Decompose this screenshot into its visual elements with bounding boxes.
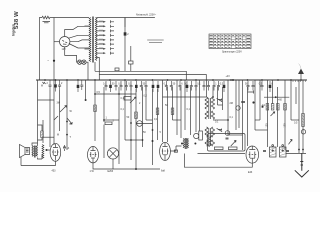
power transformer T1 primary winding: [89, 18, 91, 62]
wire column AJ: [277, 87, 279, 147]
mid horizontal link 3: [213, 119, 228, 121]
wire column O: [167, 87, 169, 142]
wire tap resistor down: [130, 64, 132, 71]
wire stub with node: [85, 80, 87, 99]
wire column D: [94, 80, 96, 141]
wire column L: [152, 89, 154, 166]
heater rail b: [99, 75, 206, 81]
wire left column C: [66, 80, 68, 150]
mid horizontal link 1: [95, 93, 136, 95]
pilot lamp LP1: [77, 60, 81, 64]
capacitor C6: [105, 81, 108, 91]
wire speaker top: [32, 143, 38, 146]
wire selector to tube: [54, 41, 60, 43]
resistor R10b: [271, 104, 274, 111]
wire column U: [195, 87, 197, 132]
potentiometer arrow P1b: [130, 97, 136, 103]
wire tube to transformer tap lower: [69, 44, 89, 49]
svg-text:6aII: 6aII: [161, 170, 165, 173]
voltage table frame: [209, 34, 251, 49]
electrolytic C31: [269, 81, 272, 92]
node dot m4: [142, 139, 144, 141]
heater rail stub: [94, 62, 96, 71]
capacitor C4: [77, 81, 80, 92]
socket circle mid: [137, 121, 143, 127]
LP1 filament cross: [78, 61, 81, 64]
V3 filament cross: [110, 150, 117, 157]
V5 grid: [249, 154, 257, 156]
output tube V1 envelope: [50, 143, 61, 161]
AF transformer T3 core: [184, 138, 187, 149]
power transformer T1 secondary winding: [95, 18, 97, 61]
heater rail a: [95, 71, 186, 80]
top caps right of V5: [263, 151, 289, 152]
node dot coil top: [212, 96, 214, 98]
link 43-54: [43, 136, 54, 138]
volume potentiometer wiper: [67, 118, 72, 124]
secondary tap 4: [97, 30, 104, 32]
wire transformer to V1: [38, 150, 51, 159]
fuse Si blob: [124, 32, 127, 35]
wire fuse to +4V rail: [124, 18, 126, 72]
secondary bottom lead: [97, 58, 100, 81]
junction +4V node: [232, 79, 234, 81]
V1 anode: [53, 144, 58, 148]
secondary tap 6: [97, 39, 104, 41]
mid link 9: [146, 119, 153, 121]
mid horizontal link 7: [125, 139, 143, 141]
wire column AC: [238, 80, 240, 128]
capacitor C13: [140, 81, 143, 91]
table cell entries: [210, 36, 251, 48]
node dot m3: [130, 139, 132, 141]
wire column AE: [247, 87, 249, 146]
capacitor C26: [217, 81, 220, 91]
electrolytic block EC1: [270, 147, 277, 157]
wire selector branch down: [53, 18, 55, 81]
wire column S: [184, 80, 186, 130]
note text right of taps: [147, 40, 164, 42]
IF transformer L1 lower winding: [205, 111, 215, 119]
wire column AL: [290, 80, 292, 120]
selector contacts inside: [62, 40, 67, 44]
EC2 hatch: [280, 148, 286, 156]
antenna lead-in faint: [299, 64, 301, 69]
capacitor C21: [190, 81, 193, 91]
V1 inner electrodes: [53, 150, 57, 156]
capacitor C19: [179, 81, 182, 91]
capacitor C3: [58, 81, 61, 91]
electrolytic C16: [157, 81, 160, 92]
node dot 67b: [66, 134, 68, 136]
rectifier tube V3 envelope: [107, 148, 118, 159]
capacitor C11: [130, 81, 133, 91]
node dot output: [46, 149, 48, 151]
node dot det: [252, 101, 254, 103]
wire column G: [124, 80, 126, 140]
main chassis bus: [36, 79, 307, 81]
IF transformer L2 windings: [205, 127, 215, 137]
node dot right b: [302, 149, 304, 151]
wire column AN: [298, 80, 300, 153]
AF transformer T3 secondary: [187, 138, 188, 148]
V1 grid: [52, 151, 59, 153]
wire left column B: [53, 80, 55, 145]
svg-text:2M: 2M: [230, 102, 233, 105]
wire left column A: [37, 80, 39, 143]
coupling capacitor CC1: [241, 102, 245, 103]
wire column AA: [227, 80, 229, 135]
detector tube V4 envelope: [160, 142, 171, 160]
table row lines: [209, 37, 251, 46]
tap voltage marks: [99, 21, 103, 48]
wire from R1 left down to chassis bus: [40, 18, 43, 81]
primary tap arrow upper: [85, 25, 90, 27]
module cap: [226, 138, 229, 139]
mid link 12: [291, 119, 299, 121]
capacitor C18: [170, 81, 173, 91]
wire V4 to module: [170, 146, 181, 151]
wire column AB: [235, 80, 237, 130]
mid horizontal link 5: [255, 129, 268, 131]
output tube V5 envelope: [246, 146, 259, 163]
wire column M: [157, 89, 159, 141]
switch contact: [54, 116, 58, 120]
tone capacitor circle: [194, 133, 199, 138]
IF transformer L1 upper winding: [205, 97, 215, 109]
wire column AD: [242, 80, 244, 150]
wire column Z: [222, 87, 224, 110]
EC2 plus: [282, 149, 285, 152]
bus stub ticks right: [293, 80, 306, 82]
V2 anode: [91, 147, 96, 151]
svg-text:100: 100: [284, 123, 287, 128]
node dot mid1: [130, 122, 132, 124]
svg-text:12V: 12V: [62, 48, 67, 51]
wire tube to transformer tap upper: [68, 35, 89, 38]
bus junction dots: [44, 79, 302, 81]
V4 inner electrodes: [163, 149, 168, 155]
module trimmer arrow: [231, 141, 236, 147]
resistor R1 mains dropper: [42, 16, 50, 19]
svg-text:E263: E263: [108, 170, 114, 173]
tone cap circle right of coil: [225, 131, 230, 136]
wire column AK: [284, 80, 286, 150]
wire column W: [206, 80, 208, 97]
capacitor C1: [49, 81, 52, 91]
AVC rail: [264, 96, 289, 98]
rail box: [115, 68, 119, 71]
node dot m2: [103, 119, 105, 121]
V5 inner electrodes: [250, 152, 255, 159]
wire column Q: [176, 80, 178, 135]
svg-text:M: M: [70, 123, 72, 126]
mid link 14: [136, 123, 153, 125]
capacitor C9: [120, 81, 123, 91]
mid horizontal link 4: [228, 134, 243, 136]
resistor R10c: [277, 104, 280, 111]
resistor R2b horizontal: [124, 97, 131, 101]
potentiometer arrow P1: [60, 106, 67, 113]
output transformer T2 secondary: [36, 146, 37, 157]
capacitor C30: [261, 81, 264, 91]
fuse ticks: [43, 82, 46, 84]
resistor R10a: [266, 104, 269, 111]
LP2 filament cross: [82, 61, 85, 64]
EC1 hatch: [270, 148, 276, 156]
secondary tap 9: [97, 52, 104, 54]
node dot m5: [118, 93, 120, 95]
IF transformer L2 core: [209, 128, 211, 146]
AF coupling transformer T3 primary: [183, 138, 184, 148]
node dot 67a: [66, 121, 68, 123]
speaker field coil hatch: [26, 149, 29, 152]
cathode resistor R12 zigzag: [42, 145, 44, 159]
svg-text:Netzanschl. 220V~: Netzanschl. 220V~: [136, 13, 157, 16]
wire column AH: [267, 80, 269, 147]
T3 node dot right: [194, 143, 196, 145]
wire column AF: [254, 80, 256, 130]
capacitor C22: [195, 81, 198, 91]
V1 cathode: [54, 156, 58, 161]
pilot lamp LP2: [82, 60, 86, 64]
node dot mid3: [227, 119, 229, 121]
T3 node dot left: [181, 143, 183, 145]
module resistor 1: [215, 147, 224, 150]
loop wire below module: [184, 154, 252, 168]
variable cap circle right: [301, 130, 305, 134]
wire column AM2: [295, 87, 297, 104]
output transformer T2 core: [33, 146, 36, 158]
electrolytic block EC2: [280, 147, 287, 157]
resistor R6: [171, 108, 174, 115]
secondary tap 8: [97, 48, 104, 50]
secondary tap 1: [97, 17, 155, 19]
value label 100: [43, 22, 51, 23]
svg-text:1 W: 1 W: [90, 170, 95, 173]
capacitor C25: [213, 81, 216, 91]
node dot bottom1: [135, 168, 137, 170]
resistor R3 vertical: [135, 112, 138, 119]
dropper feed wire: [124, 18, 126, 28]
svg-text:E43: E43: [248, 171, 253, 174]
capacitor C27: [223, 81, 226, 92]
wire lamps to bus: [86, 62, 88, 80]
ground symbol (earth arrow): [295, 153, 309, 177]
mid horizontal link 6: [104, 119, 119, 121]
wire column N: [162, 80, 164, 142]
wire column 43: [42, 120, 44, 143]
capacitor C14: [145, 81, 148, 91]
resistor R10d: [284, 104, 287, 111]
V2 cathode: [91, 158, 95, 163]
capacitor C23: [203, 81, 206, 91]
wire bottom bus left: [93, 163, 160, 169]
wire column E2: [49, 90, 51, 147]
wire R11 top: [38, 125, 43, 131]
trimmer arrow far right: [289, 140, 293, 145]
capacitor C17: [165, 81, 168, 91]
node dot mid2: [152, 129, 154, 131]
svg-text:M: M: [57, 134, 59, 137]
electrolytic C12: [135, 81, 138, 92]
resistor R7 vertical right: [302, 114, 305, 127]
table column lines: [214, 34, 246, 49]
resistor R13 box vertical: [199, 131, 203, 140]
wire column AI: [272, 80, 274, 104]
driver tube V2 envelope: [88, 147, 99, 163]
mid link 11: [255, 119, 260, 121]
secondary tap 3: [97, 25, 104, 27]
band filter module box: [208, 134, 246, 152]
node dot AVC: [275, 96, 277, 98]
module coil: [209, 136, 212, 147]
antenna arrow: [299, 69, 304, 80]
small caps near V1: [63, 145, 66, 151]
V4 cathode: [163, 155, 167, 160]
IF transformer L2 lower winding: [205, 140, 215, 146]
trimmer capacitor CT2: [217, 128, 223, 131]
secondary tap 2: [97, 21, 104, 23]
wire C3 tail: [59, 90, 61, 131]
svg-text:+4V: +4V: [226, 75, 231, 78]
wire column P: [172, 87, 174, 120]
secondary tap 7: [97, 43, 104, 45]
diode detector D1: [236, 106, 240, 110]
node dot selector: [53, 60, 55, 62]
wire column K: [145, 87, 147, 120]
wire column V: [199, 80, 201, 131]
V4 grid: [162, 150, 169, 152]
node dot m1: [94, 93, 96, 95]
wire from R1 right to transformer primary: [50, 17, 89, 19]
wire column F: [118, 87, 120, 164]
secondary tap 5: [97, 34, 104, 36]
IF transformer L1 core: [209, 98, 211, 119]
EC1 terminal: [272, 145, 274, 147]
small resistor box low: [174, 150, 177, 152]
wire column I: [135, 89, 137, 131]
wire column T: [190, 87, 192, 135]
V2 grid: [90, 154, 97, 156]
wire column AG: [259, 80, 261, 120]
mid link 13: [218, 104, 223, 106]
grid cap lead: [248, 91, 254, 94]
resistor R11 left: [41, 131, 44, 138]
electrolytic C2: [54, 81, 57, 92]
mid horizontal link 2: [163, 96, 207, 98]
wire V3 bottom: [112, 159, 114, 169]
capacitor C8: [115, 81, 118, 91]
grid leak resistor R4: [94, 105, 97, 112]
tap resistor box: [129, 61, 133, 64]
EC2 terminal: [282, 145, 284, 147]
trimmer capacitor CT1: [217, 98, 223, 101]
wire column H: [130, 87, 132, 160]
trimmer arrow right: [271, 112, 275, 116]
capacitor C5: [80, 81, 83, 91]
wire tap resistor up: [130, 46, 132, 61]
wire column AO: [302, 80, 304, 153]
wire tube to mid tap: [70, 40, 89, 42]
wire V1 bottom: [21, 157, 55, 166]
loudspeaker LS: [20, 145, 30, 158]
wire module bottom rail: [198, 153, 246, 155]
EC1 plus: [272, 149, 275, 152]
resistor R5: [156, 108, 159, 115]
svg-text:~: ~: [47, 59, 49, 63]
svg-text:+60: +60: [278, 99, 283, 102]
capacitor C24: [207, 81, 210, 91]
svg-text:100: 100: [266, 123, 269, 128]
R7 hatch: [302, 116, 305, 126]
wire column J: [142, 87, 144, 147]
node dot mid2b: [152, 140, 154, 142]
power transformer T1 core: [93, 17, 94, 63]
wire column R: [180, 87, 182, 138]
wire column E: [103, 87, 105, 158]
V4 anode: [163, 143, 168, 147]
primary tap arrow lower: [85, 48, 90, 50]
wire column I extension: [135, 130, 137, 169]
wire upper link to taps: [65, 26, 89, 36]
svg-text:Spannungen 220V: Spannungen 220V: [222, 51, 242, 54]
module resistor 2: [229, 147, 238, 150]
mica cap black: [262, 106, 264, 108]
V5 anode: [249, 146, 255, 150]
resistor R2 horizontal: [105, 122, 112, 125]
electrolytic C7: [109, 81, 112, 92]
tube/selector V0 circle: [59, 37, 69, 47]
node dot right a: [298, 149, 300, 151]
capacitor C29: [252, 81, 255, 91]
V5 cathode: [250, 158, 255, 163]
wire column Y: [217, 87, 219, 105]
mid link 8: [38, 99, 55, 101]
electrolytic C15: [152, 81, 155, 92]
svg-text:Ingelen: Ingelen: [11, 24, 15, 36]
capacitor C20: [186, 81, 189, 92]
wire column X: [212, 87, 214, 97]
wire R11 bottom: [38, 138, 43, 141]
svg-text:453: 453: [52, 170, 57, 173]
capacitor C10: [125, 81, 128, 91]
svg-text:M: M: [41, 85, 43, 88]
output transformer T2 primary: [32, 146, 33, 157]
V2 inner electrodes: [91, 152, 95, 157]
wire tube bottom to lamp row: [65, 47, 78, 62]
mid link 10: [173, 119, 182, 121]
bottom right rail: [286, 152, 306, 154]
capacitor C28: [247, 81, 250, 91]
